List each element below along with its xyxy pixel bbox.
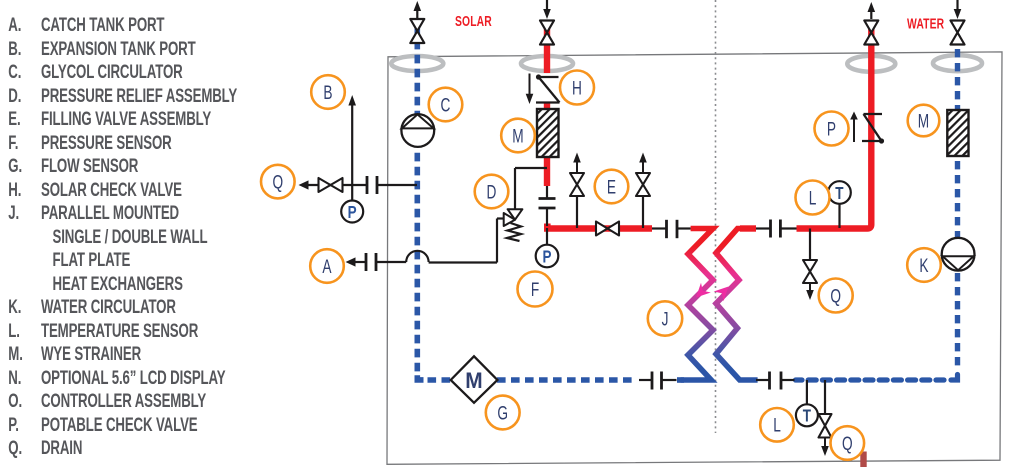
union after right exchanger top xyxy=(756,220,797,238)
svg-text:SOLAR: SOLAR xyxy=(455,12,492,29)
union on A line xyxy=(366,253,376,271)
enclosure box xyxy=(387,52,1002,464)
svg-text:P: P xyxy=(542,248,551,267)
svg-text:H: H xyxy=(572,77,582,99)
valve: balancing valve on red supply xyxy=(596,222,619,236)
label circle F xyxy=(518,272,553,307)
sensor P (pressure, left) xyxy=(341,185,363,223)
union before left exchanger top xyxy=(652,220,691,238)
svg-text:A: A xyxy=(322,256,331,278)
svg-text:Q: Q xyxy=(272,171,283,193)
label circle C xyxy=(429,88,463,122)
label circle A xyxy=(310,249,344,283)
svg-text:C: C xyxy=(441,94,451,116)
svg-text:WATER: WATER xyxy=(907,15,945,32)
heat exchanger J left coil xyxy=(681,229,714,381)
valve: hot water isolation (top right) xyxy=(864,2,878,45)
grey bulkhead ellipse hot water xyxy=(847,56,895,72)
flow arrow on left coil xyxy=(696,283,711,298)
label circle P right xyxy=(815,112,849,146)
svg-text:P: P xyxy=(348,203,357,222)
svg-text:L: L xyxy=(809,187,817,209)
label circle Q left xyxy=(261,165,295,199)
label circle D xyxy=(475,175,509,209)
svg-text:L: L xyxy=(773,414,781,436)
label circle H xyxy=(560,71,594,105)
sensor F (pressure mid) xyxy=(536,228,559,267)
heat exchanger J right coil xyxy=(716,229,758,381)
pressure relief assembly D xyxy=(497,168,547,263)
label circle L bottom xyxy=(760,408,794,442)
svg-text:D: D xyxy=(487,181,497,203)
svg-text:T: T xyxy=(835,184,843,203)
wire: blue solid before left exchanger xyxy=(677,377,684,383)
svg-text:T: T xyxy=(803,407,811,426)
label circle B xyxy=(311,75,345,109)
valve: solar return isolation (top left) xyxy=(410,1,424,43)
wye strainer M (solar) xyxy=(537,109,559,157)
drain Q (mid right) xyxy=(803,229,817,301)
svg-text:J: J xyxy=(662,308,669,330)
sensor T (bottom) xyxy=(796,380,818,426)
wire: red top of right exchanger stub xyxy=(740,225,756,231)
dotted divider line xyxy=(715,0,717,433)
flow arrow on right coil xyxy=(714,287,729,302)
wire: hot water red riser and horizontal xyxy=(797,21,872,229)
sensor T (top right) xyxy=(828,181,851,228)
label circle K xyxy=(907,248,941,282)
union on B line xyxy=(367,176,377,194)
svg-text:Q: Q xyxy=(842,433,853,455)
svg-text:B: B xyxy=(323,82,332,104)
wye strainer M (water) xyxy=(947,110,968,156)
arrow: catch tank port A xyxy=(346,257,356,266)
svg-text:P: P xyxy=(827,118,836,140)
label circle J xyxy=(648,301,682,335)
check valve P (potable, right riser) xyxy=(850,112,884,144)
wire: blue dashed bottom mid segment xyxy=(497,377,637,383)
svg-text:Q: Q xyxy=(830,285,841,307)
grey bulkhead ellipse solar supply xyxy=(521,56,573,71)
svg-text:E: E xyxy=(607,176,616,198)
wire: expansion tank / fill line y=185 xyxy=(307,184,417,186)
union below strainer xyxy=(539,186,556,226)
svg-text:M: M xyxy=(465,369,482,394)
pump K water circulator xyxy=(942,238,975,271)
label circle M water xyxy=(908,105,940,137)
svg-text:F: F xyxy=(531,279,539,301)
wire: red supply horizontal left xyxy=(544,225,652,231)
node: red tee junction xyxy=(544,224,551,231)
union before left exchanger bottom xyxy=(639,372,677,390)
dark red page mark xyxy=(860,452,866,467)
label circle E xyxy=(595,170,629,204)
union after right exchanger bottom xyxy=(756,372,795,390)
arrow: drain Q left xyxy=(299,180,309,189)
wire: expansion tank riser xyxy=(348,95,356,185)
drain Q (bottom) xyxy=(819,380,832,456)
svg-text:M: M xyxy=(512,125,523,147)
flow sensor G diamond xyxy=(451,356,498,403)
grey bulkhead ellipse cold water xyxy=(933,55,982,71)
pump C glycol circulator xyxy=(401,114,434,147)
wire: water supply blue dashed (right) xyxy=(796,21,958,380)
grey bulkhead ellipse left xyxy=(391,56,443,71)
WATER label xyxy=(907,15,945,32)
label circle L top xyxy=(796,181,830,215)
wire: solar supply red riser xyxy=(544,21,550,186)
svg-text:G: G xyxy=(497,402,508,424)
wire: catch tank line y=262 xyxy=(354,251,497,263)
svg-text:K: K xyxy=(919,255,928,277)
valve: fill/drain valve on B line xyxy=(319,178,343,192)
svg-text:M: M xyxy=(918,110,929,132)
label circle Q mid right xyxy=(819,279,853,313)
valve: cold water isolation (top right) xyxy=(951,0,965,45)
check valve H (solar) xyxy=(526,74,560,105)
label circle Q bottom xyxy=(831,426,865,460)
wire: solar return blue dashed loop (left) xyxy=(417,21,451,380)
valve: solar supply isolation (top) xyxy=(540,0,554,45)
label circle G xyxy=(486,396,520,430)
SOLAR label xyxy=(455,12,492,29)
legend list xyxy=(0,0,270,1)
filling valve E1 xyxy=(570,153,584,229)
filling valve E2 xyxy=(636,153,650,229)
label circle M solar xyxy=(501,119,535,153)
